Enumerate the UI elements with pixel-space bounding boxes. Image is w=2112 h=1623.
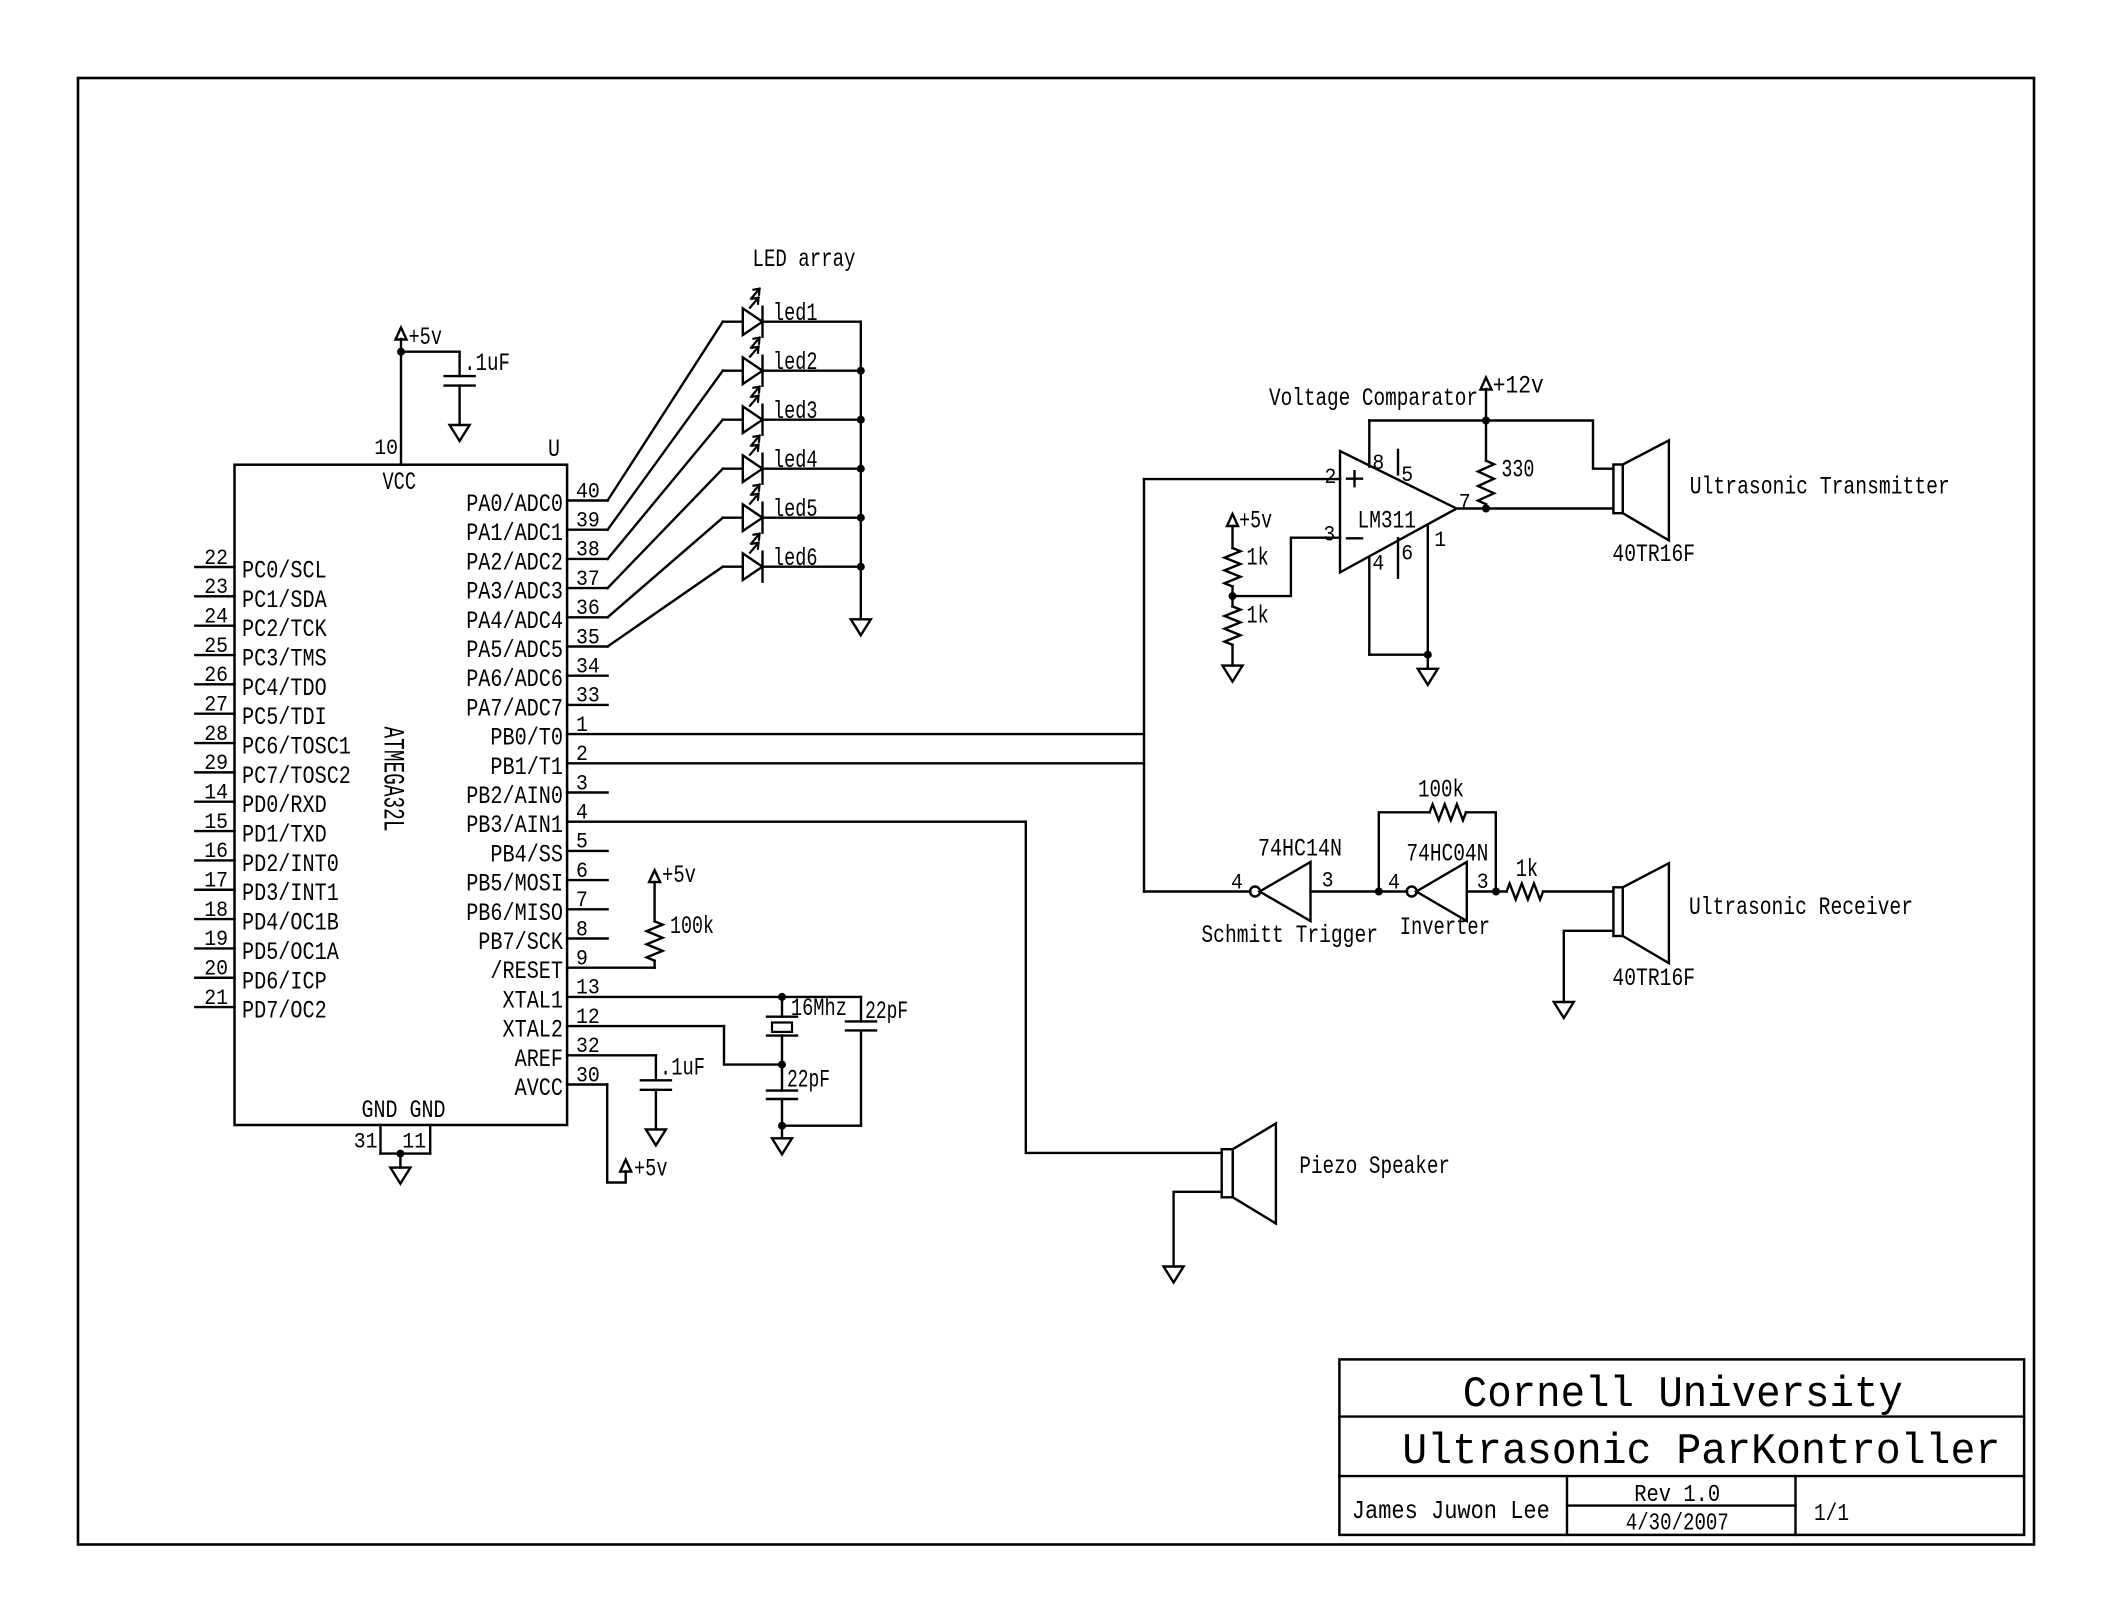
svg-text:Inverter: Inverter [1400, 913, 1490, 942]
speaker LS2 ultrasonic receiver 40TR16F [1613, 887, 1622, 936]
node VCC junction [397, 348, 405, 356]
wire +5v to R1 [653, 882, 655, 921]
node XTAL2 junction [778, 1061, 786, 1069]
node bus junction [857, 514, 865, 522]
svg-text:PA5/ADC5: PA5/ADC5 [466, 636, 563, 665]
svg-text:+5v: +5v [634, 1155, 668, 1184]
svg-text:PC2/TCK: PC2/TCK [242, 615, 327, 644]
svg-text:40TR16F: 40TR16F [1612, 964, 1695, 993]
svg-text:ATMEGA32L: ATMEGA32L [375, 727, 409, 832]
svg-text:24: 24 [204, 604, 228, 629]
wire receiver low terminal to ground [1564, 931, 1614, 1002]
svg-text:PC7/TOSC2: PC7/TOSC2 [242, 762, 351, 791]
wire feedback right leg [1466, 812, 1496, 891]
wire PB0 to comparator + input [567, 733, 1144, 735]
wire pin 39 diagonal to led2 [608, 371, 723, 530]
wire divider to comparator - input [1233, 538, 1341, 596]
inverter U4 74HC04N [1407, 887, 1417, 897]
wire R4 to ground [1231, 645, 1233, 666]
ground below C3 [772, 1138, 792, 1154]
svg-text:PB0/T0: PB0/T0 [490, 724, 563, 753]
title vertical divider left [1566, 1476, 1568, 1535]
svg-text:LM311: LM311 [1358, 507, 1417, 536]
wire C1 to ground [458, 386, 460, 425]
svg-text:23: 23 [204, 575, 228, 600]
svg-text:14: 14 [204, 781, 228, 806]
svg-text:4: 4 [1372, 551, 1384, 576]
svg-text:PC5/TDI: PC5/TDI [242, 703, 327, 732]
pin 37 PA3/ADC3 stub [567, 587, 608, 589]
pin 19 PD5/OC1A stub [195, 947, 234, 949]
svg-text:PD5/OC1A: PD5/OC1A [242, 938, 339, 967]
svg-text:led6: led6 [773, 544, 818, 573]
svg-text:5: 5 [1401, 463, 1413, 488]
svg-text:36: 36 [576, 596, 600, 621]
svg-text:34: 34 [576, 655, 600, 680]
wire pin 40 diagonal to led1 [608, 322, 723, 501]
pin 36 PA4/ADC4 stub [567, 616, 608, 618]
power +5v supply at VCC [396, 328, 407, 340]
svg-text:4/30/2007: 4/30/2007 [1626, 1511, 1729, 1538]
power +5v supply at divider [1227, 514, 1238, 526]
svg-text:40TR16F: 40TR16F [1612, 540, 1695, 569]
svg-text:6: 6 [576, 859, 588, 884]
resistor R4 1k lower [1225, 606, 1241, 644]
node feedback left junction [1375, 888, 1383, 896]
svg-text:PB1/T1: PB1/T1 [490, 753, 563, 782]
svg-text:led5: led5 [773, 495, 818, 524]
ground below piezo [1164, 1267, 1184, 1283]
capacitor C3 22pF lower [781, 1065, 783, 1091]
wire pin 7 output [1457, 507, 1614, 509]
svg-text:+5v: +5v [409, 323, 443, 352]
svg-text:18: 18 [204, 898, 228, 923]
svg-text:10: 10 [374, 436, 398, 461]
svg-text:29: 29 [204, 751, 228, 776]
node XTAL1 junction [778, 993, 786, 1001]
svg-text:PC6/TOSC1: PC6/TOSC1 [242, 733, 351, 762]
svg-text:37: 37 [576, 567, 600, 592]
pin 34 PA6/ADC6 stub [567, 675, 608, 677]
wire R6 to receiver [1543, 890, 1613, 892]
svg-text:PB4/SS: PB4/SS [490, 840, 563, 869]
microcontroller U ATMEGA32L body [235, 465, 568, 1125]
comparator U2 LM311 triangle [1340, 451, 1457, 572]
wire schmitt output to inverter [1311, 890, 1408, 892]
node GND junction [396, 1150, 404, 1158]
pin 39 PA1/ADC1 stub [567, 529, 608, 531]
node bus junction [857, 465, 865, 473]
pin 18 PD4/OC1B stub [195, 918, 234, 920]
svg-text:PB6/MISO: PB6/MISO [466, 899, 563, 928]
capacitor C4 22pF right [860, 997, 862, 1022]
pin 7 PB6/MISO stub [567, 908, 608, 910]
svg-text:PA4/ADC4: PA4/ADC4 [466, 607, 563, 636]
power +5v supply at RESET [649, 870, 660, 882]
svg-text:Cornell University: Cornell University [1463, 1370, 1903, 1420]
pin 38 PA2/ADC2 stub [567, 558, 608, 560]
svg-text:+5v: +5v [1239, 506, 1272, 535]
svg-text:13: 13 [576, 976, 600, 1001]
svg-text:.1uF: .1uF [660, 1054, 705, 1083]
wire feedback left leg [1379, 812, 1430, 891]
svg-text:32: 32 [576, 1034, 600, 1059]
svg-text:AREF: AREF [515, 1045, 563, 1074]
svg-text:/RESET: /RESET [490, 957, 563, 986]
svg-text:Voltage Comparator: Voltage Comparator [1269, 384, 1478, 413]
svg-text:VCC: VCC [383, 468, 417, 497]
svg-text:Ultrasonic Transmitter: Ultrasonic Transmitter [1690, 472, 1950, 501]
svg-text:led1: led1 [773, 299, 818, 328]
svg-text:PD7/OC2: PD7/OC2 [242, 997, 327, 1026]
wire pin 36 diagonal to led5 [608, 518, 723, 618]
svg-text:PD3/INT1: PD3/INT1 [242, 879, 339, 908]
svg-text:27: 27 [204, 693, 228, 718]
svg-text:3: 3 [1323, 523, 1335, 548]
speaker LS1 ultrasonic transmitter 40TR16F [1613, 465, 1622, 514]
wire PB3 to piezo speaker [567, 822, 1222, 1153]
wire V+ rail [1369, 421, 1613, 469]
wire AREF to C2 [655, 1055, 657, 1080]
pin 27 PC5/TDI stub [195, 713, 234, 715]
svg-text:Schmitt Trigger: Schmitt Trigger [1201, 921, 1378, 950]
svg-text:4: 4 [1231, 871, 1243, 896]
pin 13 XTAL1 stub [567, 996, 861, 998]
node bus junction [857, 416, 865, 424]
pin 4 lead [1368, 557, 1370, 655]
pin 9 /RESET stub [567, 967, 655, 969]
pin 25 PC3/TMS stub [195, 654, 234, 656]
pin 8 lead [1368, 421, 1370, 467]
pin 24 PC2/TCK stub [195, 624, 234, 626]
svg-text:PA0/ADC0: PA0/ADC0 [466, 490, 563, 519]
svg-text:11: 11 [402, 1130, 426, 1155]
svg-text:1k: 1k [1516, 855, 1538, 884]
wire joining GND pins [381, 1152, 431, 1154]
svg-text:6: 6 [1401, 542, 1413, 567]
capacitor .1uF at VCC [445, 375, 475, 377]
node LM311 ground junction [1424, 651, 1432, 659]
svg-text:1/1: 1/1 [1814, 1501, 1849, 1528]
wire piezo low terminal to ground [1174, 1192, 1222, 1267]
pin 14 PD0/RXD stub [195, 801, 234, 803]
power +5v supply at AVCC [620, 1160, 631, 1172]
svg-text:GND GND: GND GND [362, 1096, 446, 1125]
pin 33 PA7/ADC7 stub [567, 704, 608, 706]
ground below C1 [450, 425, 470, 441]
svg-text:21: 21 [204, 986, 228, 1011]
plus input marker [1347, 478, 1362, 480]
title block frame [1339, 1359, 2024, 1535]
svg-text:Piezo Speaker: Piezo Speaker [1299, 1152, 1450, 1181]
svg-text:PB5/MOSI: PB5/MOSI [466, 870, 563, 899]
pin 8 PB7/SCK stub [567, 937, 608, 939]
svg-text:+12v: +12v [1493, 371, 1544, 400]
svg-text:PC1/SDA: PC1/SDA [242, 586, 327, 615]
svg-text:17: 17 [204, 869, 228, 894]
wire AVCC to +5v [607, 1085, 626, 1183]
resistor R3 1k upper [1225, 548, 1241, 586]
wire C2 to ground [655, 1090, 657, 1130]
svg-text:100k: 100k [670, 912, 714, 941]
title mid divider [1567, 1504, 1796, 1506]
wire PB1 to schmitt trigger output [567, 762, 1144, 764]
pin 11 GND lead [429, 1125, 431, 1154]
svg-text:4: 4 [1388, 871, 1400, 896]
svg-text:1k: 1k [1247, 543, 1269, 572]
pin 29 PC7/TOSC2 stub [195, 771, 234, 773]
diode led6 [723, 566, 743, 568]
svg-text:40: 40 [576, 479, 600, 504]
svg-text:1k: 1k [1247, 602, 1269, 631]
svg-text:LED array: LED array [753, 245, 856, 274]
svg-text:15: 15 [204, 810, 228, 835]
svg-text:Ultrasonic Receiver: Ultrasonic Receiver [1689, 893, 1913, 922]
node feedback right junction [1492, 888, 1500, 896]
svg-text:28: 28 [204, 722, 228, 747]
svg-text:James Juwon Lee: James Juwon Lee [1352, 1496, 1550, 1526]
svg-text:26: 26 [204, 663, 228, 688]
svg-text:PB2/AIN0: PB2/AIN0 [466, 782, 563, 811]
svg-text:38: 38 [576, 538, 600, 563]
node divider junction [1229, 592, 1237, 600]
node output junction [1482, 505, 1490, 513]
svg-text:PA1/ADC1: PA1/ADC1 [466, 519, 563, 548]
svg-text:35: 35 [576, 625, 600, 650]
svg-text:7: 7 [1459, 491, 1471, 516]
svg-text:2: 2 [1325, 465, 1337, 490]
svg-text:PB7/SCK: PB7/SCK [478, 928, 563, 957]
pin 17 PD3/INT1 stub [195, 889, 234, 891]
svg-text:PD2/INT0: PD2/INT0 [242, 850, 339, 879]
svg-text:Ultrasonic ParKontroller: Ultrasonic ParKontroller [1402, 1427, 2000, 1477]
svg-text:39: 39 [576, 509, 600, 534]
wire LM311 ground rail [1369, 654, 1428, 656]
svg-text:AVCC: AVCC [515, 1074, 563, 1103]
pin 6 PB5/MOSI stub [567, 879, 608, 881]
pin 30 AVCC stub [567, 1083, 607, 1085]
svg-text:9: 9 [576, 947, 588, 972]
pin 21 PD7/OC2 stub [195, 1006, 234, 1008]
svg-text:PA2/ADC2: PA2/ADC2 [466, 548, 563, 577]
pin 31 GND lead [379, 1125, 381, 1154]
pin 20 PD6/ICP stub [195, 977, 234, 979]
diode led4 [723, 468, 743, 470]
resistor R2 330 pull-up [1485, 421, 1487, 461]
node bus junction [857, 563, 865, 571]
ground below LM311 [1418, 669, 1438, 685]
wire inverter input [1467, 890, 1507, 892]
pin 26 PC4/TDO stub [195, 683, 234, 685]
pin 22 PC0/SCL stub [195, 566, 234, 568]
diode led1 [723, 321, 743, 323]
svg-text:led2: led2 [773, 348, 818, 377]
title divider 2 [1339, 1475, 2024, 1477]
pin 28 PC6/TOSC1 stub [195, 742, 234, 744]
resistor R6 1k series [1507, 884, 1544, 900]
pin 1 lead [1427, 525, 1429, 655]
node ground junction below C3 [778, 1122, 786, 1130]
wire +5v to R3 [1231, 526, 1233, 548]
svg-text:5: 5 [576, 830, 588, 855]
pin 40 PA0/ADC0 stub [567, 499, 608, 501]
power +12v supply [1485, 389, 1487, 421]
svg-text:PD0/RXD: PD0/RXD [242, 791, 327, 820]
wire pin 35 diagonal to led6 [608, 567, 723, 647]
svg-text:30: 30 [576, 1063, 600, 1088]
svg-text:PA3/ADC3: PA3/ADC3 [466, 578, 563, 607]
wire pin 37 diagonal to led4 [608, 469, 723, 588]
svg-text:16Mhz: 16Mhz [791, 994, 847, 1023]
svg-text:PC0/SCL: PC0/SCL [242, 557, 327, 586]
svg-text:led3: led3 [773, 397, 818, 426]
pin 5 lead [1397, 450, 1399, 475]
svg-text:led4: led4 [773, 446, 818, 475]
minus input marker [1347, 537, 1362, 539]
resistor R5 100k feedback [1430, 804, 1466, 820]
svg-text:22pF: 22pF [865, 997, 908, 1026]
svg-text:1: 1 [1434, 528, 1446, 553]
svg-text:PD4/OC1B: PD4/OC1B [242, 909, 339, 938]
capacitor .1uF at AREF [641, 1079, 671, 1081]
svg-text:7: 7 [576, 888, 588, 913]
svg-text:74HC14N: 74HC14N [1258, 834, 1342, 863]
svg-text:25: 25 [204, 634, 228, 659]
svg-text:74HC04N: 74HC04N [1406, 839, 1488, 868]
svg-text:330: 330 [1501, 456, 1534, 485]
svg-text:PA6/ADC6: PA6/ADC6 [466, 665, 563, 694]
svg-text:19: 19 [204, 927, 228, 952]
svg-text:100k: 100k [1418, 776, 1464, 805]
pin 23 PC1/SDA stub [195, 595, 234, 597]
speaker LS3 piezo [1222, 1149, 1233, 1197]
svg-text:PD1/TXD: PD1/TXD [242, 821, 327, 850]
svg-text:16: 16 [204, 839, 228, 864]
title vertical divider right [1794, 1476, 1796, 1535]
pin 16 PD2/INT0 stub [195, 859, 234, 861]
ground below LED bus [851, 619, 871, 635]
ground below C2 [646, 1129, 666, 1145]
pin 6 lead [1397, 538, 1399, 577]
svg-text:3: 3 [1322, 869, 1334, 894]
pin 3 PB2/AIN0 stub [567, 791, 608, 793]
svg-text:12: 12 [576, 1005, 600, 1030]
svg-text:PB3/AIN1: PB3/AIN1 [466, 811, 563, 840]
node +12v junction [1482, 417, 1490, 425]
svg-text:XTAL1: XTAL1 [503, 986, 564, 1015]
svg-text:PD6/ICP: PD6/ICP [242, 967, 327, 996]
diode led2 [723, 370, 743, 372]
svg-text:20: 20 [204, 957, 228, 982]
svg-text:22: 22 [204, 546, 228, 571]
svg-text:22pF: 22pF [787, 1066, 830, 1095]
pin 35 PA5/ADC5 stub [567, 645, 608, 647]
pin 10 VCC wire [400, 339, 402, 465]
wire XTAL2 to crystal [724, 1026, 782, 1065]
wire to C1 [401, 351, 460, 353]
svg-text:U: U [548, 435, 560, 464]
svg-text:.1uF: .1uF [464, 349, 510, 378]
wire pin 38 diagonal to led3 [608, 420, 723, 559]
pin 12 XTAL2 stub [567, 1025, 724, 1027]
node bus junction [857, 367, 865, 375]
inverter U3 schmitt trigger [1250, 887, 1260, 897]
svg-text:8: 8 [1372, 451, 1384, 476]
wire R1 to RESET [653, 961, 655, 968]
svg-text:3: 3 [576, 771, 588, 796]
svg-text:+5v: +5v [662, 861, 696, 890]
ground below IC [390, 1168, 410, 1184]
svg-text:PC4/TDO: PC4/TDO [242, 674, 327, 703]
svg-text:Rev 1.0: Rev 1.0 [1634, 1482, 1720, 1509]
svg-text:PC3/TMS: PC3/TMS [242, 645, 327, 674]
svg-text:XTAL2: XTAL2 [503, 1016, 564, 1045]
svg-text:31: 31 [354, 1130, 378, 1155]
pin 32 AREF stub [567, 1054, 656, 1056]
svg-text:33: 33 [576, 684, 600, 709]
title divider 1 [1339, 1415, 2024, 1417]
ground below receiver [1554, 1002, 1574, 1018]
pin 15 PD1/TXD stub [195, 830, 234, 832]
wire LED cathode bus [860, 322, 862, 620]
svg-text:PA7/ADC7: PA7/ADC7 [466, 694, 563, 723]
pin 5 PB4/SS stub [567, 850, 608, 852]
ground below divider [1223, 666, 1243, 682]
diode led3 [723, 419, 743, 421]
svg-text:8: 8 [576, 917, 588, 942]
resistor R1 100k pull-up [647, 921, 663, 960]
diode led5 [723, 517, 743, 519]
crystal Y1 16Mhz [781, 997, 783, 1017]
